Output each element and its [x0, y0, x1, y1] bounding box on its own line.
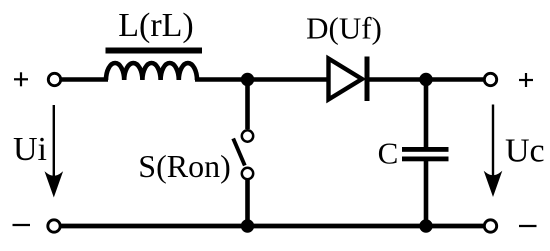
plus sign top-right: [519, 73, 533, 87]
capacitor C top plate: [402, 147, 449, 152]
bottom rail wire: [61, 224, 484, 229]
svg-text:Ui: Ui: [13, 131, 47, 168]
inductor core bar: [106, 48, 203, 54]
diode cathode bar: [365, 57, 370, 102]
wire: node down to switch top contact: [245, 80, 250, 130]
switch bottom contact circle: [242, 168, 253, 179]
svg-text:S(Ron): S(Ron): [138, 148, 230, 184]
wire: capacitor bottom plate to bottom rail: [424, 160, 429, 226]
svg-text:Uc: Uc: [505, 133, 545, 170]
terminal bottom-left: [48, 220, 60, 232]
terminal top-right: [484, 73, 496, 85]
diode D: [329, 59, 363, 100]
arrow Ui: [46, 105, 62, 196]
node: inductor/switch junction: [241, 73, 254, 86]
minus sign bottom-left: [13, 224, 31, 226]
svg-text:C: C: [378, 136, 399, 171]
capacitor C bottom plate: [402, 157, 449, 162]
terminal top-left: [48, 73, 60, 85]
switch blade: [233, 139, 245, 166]
wire: left terminal to inductor: [60, 77, 108, 82]
svg-text:L(rL): L(rL): [118, 7, 194, 44]
node: diode/capacitor junction: [419, 73, 432, 86]
switch top contact circle: [242, 130, 253, 141]
minus sign bottom-right: [519, 225, 537, 227]
terminal bottom-right: [484, 220, 496, 232]
inductor L: [106, 63, 197, 80]
plus sign top-left: [14, 72, 28, 86]
node: switch/bottom rail junction: [241, 219, 254, 232]
wire: diode to right terminal: [366, 77, 484, 82]
wire: inductor to diode: [195, 77, 330, 82]
arrow Uc: [485, 105, 501, 196]
wire: switch bottom contact to bottom rail: [245, 179, 250, 226]
svg-text:D(Uf): D(Uf): [306, 11, 382, 46]
wire: node down to capacitor top plate: [424, 80, 429, 149]
node: capacitor/bottom rail junction: [419, 219, 432, 232]
